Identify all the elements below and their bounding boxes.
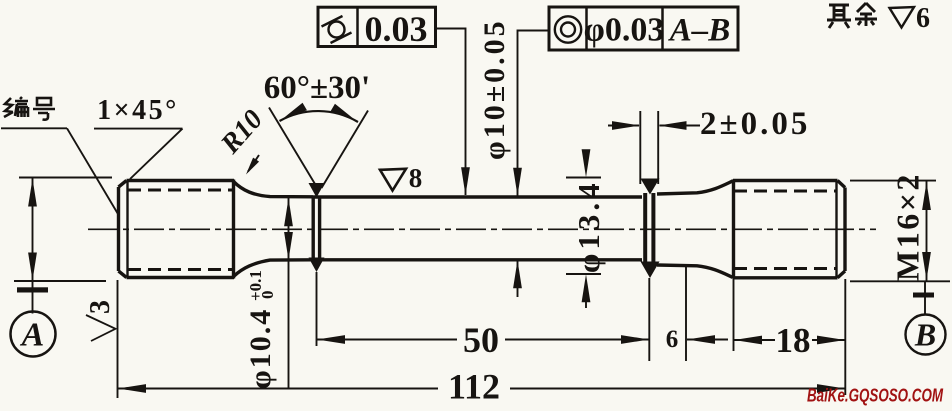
svg-text:3: 3 (85, 300, 116, 314)
right threaded head outline (733, 180, 845, 279)
svg-text:M16×2: M16×2 (890, 172, 926, 281)
R10 leader arrow (243, 155, 259, 177)
svg-text:60°±30': 60°±30' (264, 70, 370, 106)
60 degree V lines (269, 108, 368, 189)
svg-text:A: A (20, 317, 45, 354)
svg-text:φ10.4: φ10.4 (244, 308, 277, 389)
concentricity tolerance frame (549, 7, 738, 50)
svg-text:B: B (914, 317, 936, 353)
dimension 6 (686, 266, 728, 361)
svg-text:BaiKe.GQSOSO.COM: BaiKe.GQSOSO.COM (807, 386, 944, 406)
dimension phi13.4 (566, 149, 601, 308)
left transition fillet bottom (234, 260, 314, 277)
dimension left unlabeled (M16 dia) (14, 178, 112, 282)
svg-text:φ10±0.05: φ10±0.05 (478, 18, 511, 160)
svg-text:A–B: A–B (668, 13, 731, 49)
60 degree dimension arc (278, 103, 359, 126)
svg-text:112: 112 (448, 367, 500, 407)
surface mark V8 (380, 169, 406, 191)
label 编号 leader (1, 128, 118, 214)
left threaded head outline (119, 180, 235, 279)
cylindricity tolerance frame (318, 7, 436, 46)
svg-text:R10: R10 (214, 104, 269, 160)
right head thread minor dia (dashed) (734, 191, 836, 269)
cylindricity frame leader (436, 29, 470, 196)
surface mark V6 (top right) (890, 7, 915, 28)
svg-text:18: 18 (776, 321, 811, 360)
svg-text:1×45°: 1×45° (97, 95, 179, 126)
svg-text:6: 6 (916, 3, 930, 34)
svg-text:50: 50 (463, 320, 499, 360)
dimension 18 (734, 279, 846, 351)
concentricity frame leader / phi10 dimension (513, 31, 549, 298)
chinese label qiyu (827, 3, 877, 28)
chamfer 1x45 leader (94, 129, 183, 179)
dimension 112 (118, 279, 846, 398)
left V-groove (309, 183, 325, 272)
chinese label bianhao (4, 97, 55, 120)
right V-groove (641, 179, 660, 279)
datum B symbol (906, 282, 946, 355)
datum A symbol (11, 281, 56, 357)
text phi10.4 rotated with tolerance (244, 270, 277, 389)
gauge section bottom edge (313, 258, 642, 261)
svg-text:6: 6 (666, 326, 679, 353)
right transition cone top (657, 181, 733, 194)
right transition cone bottom (657, 265, 733, 278)
dimension 50 (317, 272, 650, 361)
svg-text:φ0.03: φ0.03 (584, 12, 665, 49)
svg-text:2±0.05: 2±0.05 (700, 106, 810, 142)
left head thread minor dia (dashed) (128, 190, 232, 270)
surface mark V3 rotated (86, 315, 116, 341)
dimension phi10.4 line (284, 198, 293, 389)
svg-text:8: 8 (409, 163, 423, 193)
svg-text:0: 0 (258, 291, 277, 300)
gauge section top edge (313, 195, 642, 198)
svg-text:φ13.4: φ13.4 (571, 179, 606, 273)
dimension 2+-0.05 (608, 111, 700, 184)
dimension M16x2 (850, 181, 950, 282)
left transition fillet R10 top (234, 182, 314, 197)
svg-text:0.03: 0.03 (365, 9, 428, 49)
centerline (88, 228, 876, 230)
